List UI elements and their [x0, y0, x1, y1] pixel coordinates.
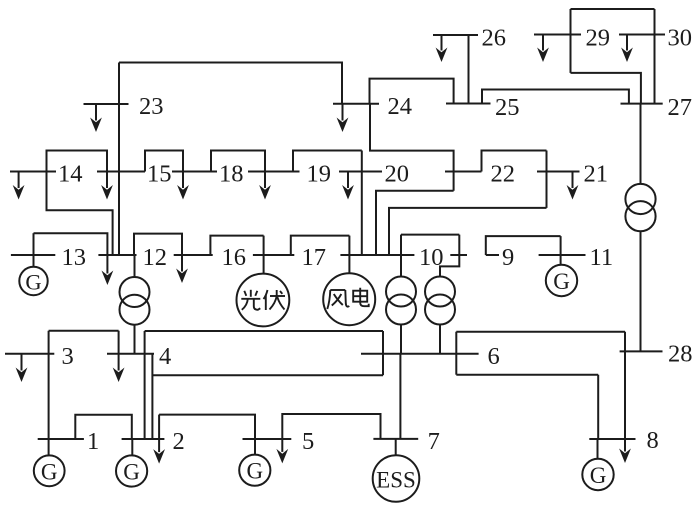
- wire T2 to bus 6: [439, 325, 441, 354]
- wire 29 left leg: [570, 9, 572, 73]
- load arrow bus 15 right: [182, 172, 184, 189]
- load arrow bus 26: [441, 35, 443, 51]
- svg-text:4: 4: [159, 343, 171, 370]
- svg-text:7: 7: [428, 428, 440, 455]
- transformer T12 coil 1: [120, 277, 150, 307]
- load arrow bus 20: [347, 172, 349, 189]
- wire 27-28 long vertical: [640, 231, 642, 351]
- load arrow bus 5: [281, 439, 283, 452]
- wire 6 stub crossing: [455, 332, 457, 375]
- wire 2-6 lower run W2: [152, 374, 383, 376]
- svg-text:28: 28: [668, 341, 693, 368]
- load arrow at 12 left: [106, 255, 108, 274]
- generator G5 stub: [254, 439, 256, 455]
- wire 14-15 bar segment: [97, 171, 145, 173]
- wire 13 leg to generator: [33, 233, 35, 267]
- bus 14 bar with left load tick: [10, 171, 56, 173]
- bus 28 bar: [620, 350, 663, 352]
- svg-text:G: G: [41, 459, 58, 484]
- bus 12 bar: [98, 254, 136, 256]
- load arrow bus 8: [624, 439, 626, 452]
- bridge over 18: [211, 151, 265, 172]
- wire 30-27 right leg: [654, 9, 656, 104]
- svg-text:13: 13: [62, 244, 87, 271]
- PV unit text (guang fu): [241, 290, 285, 310]
- svg-text:1: 1: [87, 428, 99, 455]
- bus 22-21 bar segment: [537, 171, 580, 173]
- bridge over 10: [401, 234, 459, 236]
- wire 6-8 lower run L2: [456, 374, 598, 376]
- bus 27 bar: [621, 103, 663, 105]
- bridge over 9: [486, 236, 561, 255]
- svg-text:G: G: [590, 463, 607, 488]
- svg-text:26: 26: [482, 25, 507, 52]
- wire 28-8 vertical: [624, 332, 626, 439]
- svg-text:2: 2: [173, 428, 185, 455]
- bridge 5-7: [282, 414, 380, 439]
- bridge over 16: [210, 236, 263, 255]
- bridge 14-15: [47, 151, 108, 172]
- bus 13 bar: [11, 254, 55, 256]
- svg-text:5: 5: [302, 428, 314, 455]
- bus 9-11 bar segment: [539, 254, 586, 256]
- svg-text:G: G: [25, 270, 41, 295]
- wire 17 leg down to wind unit: [348, 236, 350, 274]
- bus 19-20 bar segment: [339, 171, 382, 173]
- transformer T27 coil 1: [625, 184, 655, 214]
- wire segment y190 to node above bus 17: [376, 191, 454, 255]
- load arrow bus 14: [18, 172, 20, 189]
- wire bridge right leg with load arrow bus 4: [118, 331, 120, 354]
- svg-text:20: 20: [385, 161, 410, 188]
- bus 29 bar: [534, 34, 581, 36]
- load arrow bus 18: [264, 172, 266, 189]
- bridge over 22: [482, 151, 547, 172]
- svg-text:14: 14: [58, 161, 83, 188]
- bus 15-18 bar segment: [172, 171, 217, 173]
- svg-text:6: 6: [488, 343, 500, 370]
- wire 2 load leg: [158, 415, 160, 439]
- svg-text:30: 30: [668, 25, 693, 52]
- bridge over 15: [145, 151, 183, 172]
- transformer T12 stub upper: [134, 255, 136, 277]
- svg-text:25: 25: [495, 94, 520, 121]
- bus 8 bar: [589, 438, 635, 440]
- load arrow bus 24: [342, 104, 344, 121]
- transformer T27 stub upper: [640, 104, 642, 185]
- wire 9 leg to generator G11: [560, 236, 562, 264]
- transformer T1 coil 1: [386, 277, 416, 307]
- svg-text:15: 15: [147, 161, 172, 188]
- load arrow bus 21: [572, 172, 574, 189]
- wire 6-7 vertical: [399, 354, 401, 439]
- load arrow bus 2: [158, 439, 160, 452]
- svg-text:3: 3: [62, 343, 74, 370]
- bus 16-17 bar segment: [253, 254, 294, 256]
- transformer T27 coil 2: [625, 201, 655, 231]
- wire 10 right leg jog to transformer T2: [440, 235, 459, 277]
- svg-text:11: 11: [590, 244, 614, 271]
- load arrow bus 29: [542, 35, 544, 51]
- bus 18-19 bar segment: [248, 171, 300, 173]
- wire 19-bridge down to 17-10 node: [361, 151, 363, 255]
- bridge 13-12: [34, 233, 108, 255]
- svg-text:17: 17: [302, 244, 327, 271]
- bus 2 bar: [122, 438, 165, 440]
- svg-text:12: 12: [143, 244, 168, 271]
- wire 10-22 lower run: [389, 208, 547, 255]
- wire T1 to bus 6: [400, 325, 402, 354]
- load arrow bus 30: [626, 35, 628, 51]
- bus 5 bar: [243, 438, 292, 440]
- wire 23-15-12 vertical: [118, 63, 120, 256]
- svg-text:21: 21: [584, 161, 609, 188]
- generator G2 stub: [131, 439, 133, 456]
- load arrow at 15 left: [106, 172, 108, 189]
- generator G8 stub: [597, 439, 599, 459]
- wire 23-24 top run: [119, 63, 342, 104]
- bus 9 bar: [486, 254, 499, 256]
- svg-text:ESS: ESS: [376, 468, 416, 493]
- wire 29-30 rectangle top: [571, 8, 655, 10]
- wire 3-1 long leg: [48, 331, 50, 439]
- svg-text:G: G: [553, 269, 570, 294]
- bridge over 19: [293, 151, 362, 172]
- svg-text:23: 23: [139, 93, 164, 120]
- generator G1 stub: [48, 439, 50, 456]
- bus 30 bar: [619, 34, 665, 36]
- transformer T12 coil 2: [120, 295, 150, 325]
- wire W1 right leg: [382, 331, 384, 375]
- load arrow bus 12 right: [181, 255, 183, 272]
- svg-text:8: 8: [647, 427, 659, 454]
- wind unit text (feng dian): [327, 288, 368, 309]
- load arrow bus 3: [21, 354, 23, 371]
- generator G5 circle: [239, 455, 270, 486]
- wire 22 bridge down leg: [546, 151, 548, 208]
- svg-text:19: 19: [307, 161, 332, 188]
- bridge 1-2: [75, 415, 132, 439]
- wire T12 to bus 4: [134, 325, 136, 354]
- bus 4 bar: [107, 353, 154, 355]
- bus 10 right bar segment: [450, 254, 467, 256]
- svg-text:24: 24: [388, 93, 413, 120]
- bus 17-10 bar segment: [340, 254, 414, 256]
- bus 26 bar: [433, 34, 478, 36]
- load arrow bus 23: [95, 104, 97, 121]
- wire 4-2 vertical b: [151, 354, 153, 439]
- bus 3 bar: [5, 353, 54, 355]
- wire 10 left leg through bar to transformer T1: [400, 235, 402, 277]
- generator G1 circle: [34, 455, 65, 486]
- generator G13 circle: [19, 267, 47, 295]
- bus 20-22 bar segment: [445, 171, 482, 173]
- svg-text:G: G: [246, 459, 263, 484]
- svg-text:27: 27: [668, 94, 693, 121]
- generator G11 circle: [546, 265, 577, 296]
- wire 4-6 upper run W1: [145, 330, 383, 332]
- wire 2-4-6 vertical a: [144, 331, 146, 439]
- bus 24 bar: [333, 103, 379, 105]
- svg-text:G: G: [123, 460, 140, 485]
- ESS stub: [395, 439, 397, 455]
- wire 24-22 lower loop: [370, 104, 454, 191]
- wire 29-27 bottom run: [571, 73, 641, 104]
- bridge over 17: [291, 236, 350, 255]
- svg-text:16: 16: [222, 244, 247, 271]
- wire 2-5 riser: [159, 415, 255, 439]
- wire 26-25: [468, 35, 470, 104]
- bus 1 bar: [38, 438, 84, 440]
- svg-text:29: 29: [586, 25, 611, 52]
- transformer T1 coil 2: [386, 295, 416, 325]
- bus 12-16 bar segment: [174, 254, 213, 256]
- wire 25-27: [482, 90, 629, 104]
- wind unit circle: [323, 273, 375, 325]
- svg-text:9: 9: [502, 244, 514, 271]
- bus 6 bar: [361, 353, 479, 355]
- wire 6-28 upper run L1: [456, 331, 625, 333]
- bus 23 bar: [84, 103, 129, 105]
- wire 16 leg down to PV: [263, 236, 265, 274]
- bridge over 12: [134, 234, 182, 255]
- wire 14-12: [47, 172, 113, 256]
- PV unit circle: [237, 274, 290, 327]
- bus 25 bar: [446, 103, 491, 105]
- generator G8 circle: [582, 459, 613, 490]
- bus 7 bar: [373, 438, 418, 440]
- wire L2 down to bus 8: [597, 375, 599, 439]
- transformer T2 coil 2: [425, 295, 455, 325]
- generator G2 circle: [116, 455, 147, 486]
- ESS circle: [373, 455, 420, 502]
- bridge 3-4: [49, 330, 119, 332]
- svg-text:22: 22: [491, 161, 516, 188]
- transformer T2 coil 1: [425, 277, 455, 307]
- wire 24-25 upper: [370, 79, 454, 104]
- svg-text:18: 18: [219, 161, 244, 188]
